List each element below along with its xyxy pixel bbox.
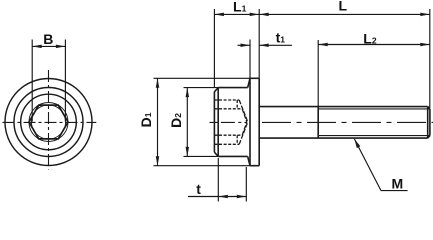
svg-text:B: B — [43, 31, 53, 47]
svg-text:L2: L2 — [363, 31, 377, 47]
svg-text:D1: D1 — [138, 112, 154, 127]
svg-text:L1: L1 — [233, 0, 247, 15]
svg-text:M: M — [392, 176, 404, 192]
svg-text:t1: t1 — [276, 30, 286, 46]
svg-text:t: t — [196, 181, 201, 197]
svg-text:L: L — [339, 0, 348, 14]
svg-text:D2: D2 — [168, 113, 184, 128]
